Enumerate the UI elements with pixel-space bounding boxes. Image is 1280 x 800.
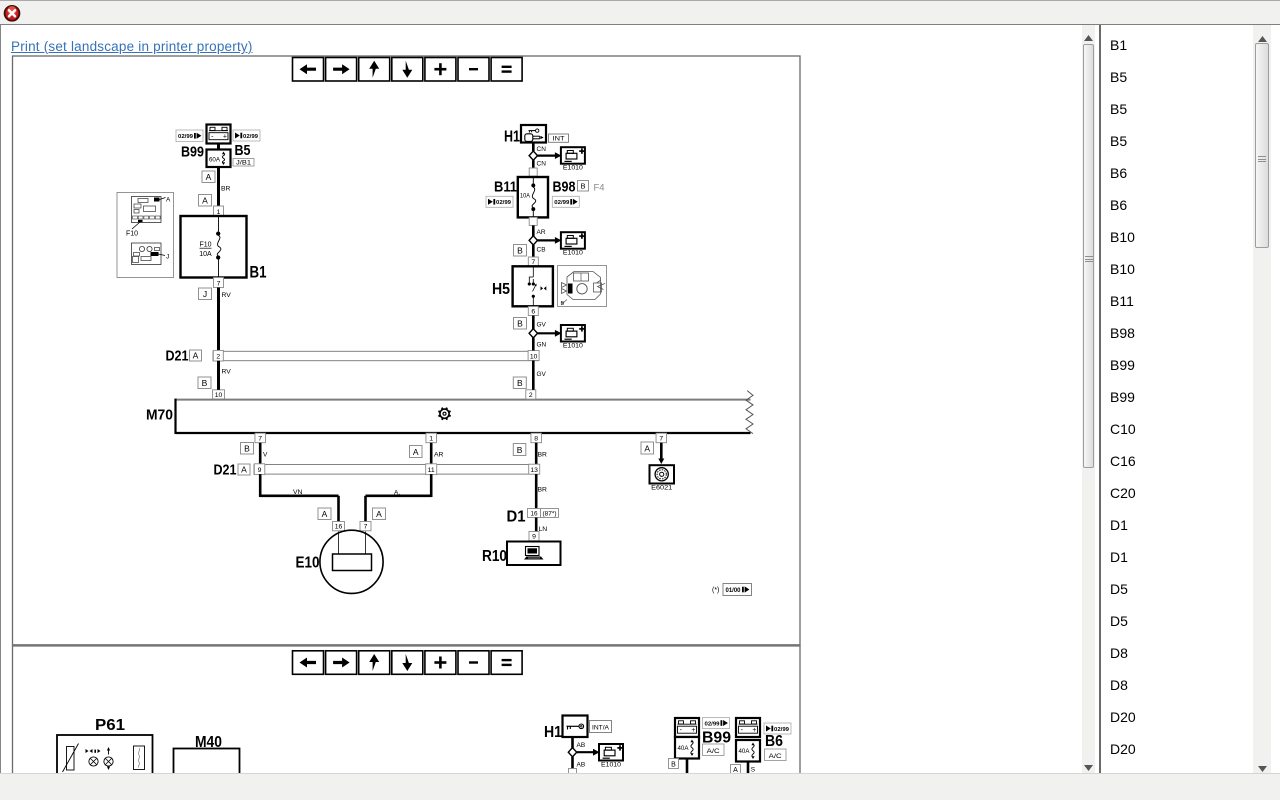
svg-text:GV: GV	[537, 322, 547, 329]
svg-text:LN: LN	[539, 526, 548, 533]
svg-text:02/99: 02/99	[554, 200, 570, 206]
svg-text:2: 2	[529, 392, 533, 399]
svg-text:E6021: E6021	[651, 485, 673, 492]
svg-text:BR: BR	[221, 186, 231, 193]
svg-text:A: A	[193, 350, 199, 360]
svg-text:B6: B6	[765, 733, 783, 750]
svg-text:F10: F10	[126, 231, 138, 238]
svg-text:A: A	[206, 172, 212, 182]
svg-text:E1010: E1010	[563, 343, 584, 350]
svg-text:A/C: A/C	[707, 748, 720, 755]
svg-text:B: B	[561, 301, 565, 307]
svg-text:B: B	[671, 761, 676, 768]
svg-text:(87*): (87*)	[543, 511, 557, 518]
svg-text:+: +	[223, 133, 227, 140]
svg-text:60A: 60A	[209, 158, 220, 164]
svg-text:A/C: A/C	[769, 753, 782, 760]
svg-text:+: +	[752, 727, 756, 734]
svg-text:D1: D1	[507, 509, 526, 526]
svg-text:D21: D21	[214, 463, 237, 479]
svg-text:1: 1	[429, 436, 433, 443]
svg-text:02/99: 02/99	[774, 727, 790, 733]
svg-text:A.: A.	[394, 490, 400, 497]
svg-text:9: 9	[258, 467, 262, 474]
svg-text:M70: M70	[146, 407, 173, 424]
svg-text:D21: D21	[166, 349, 189, 365]
svg-text:P61: P61	[95, 717, 125, 734]
svg-text:B: B	[517, 245, 523, 255]
svg-text:B: B	[517, 378, 523, 388]
svg-text:GV: GV	[537, 371, 547, 378]
svg-text:A: A	[376, 509, 382, 519]
svg-text:02/99: 02/99	[243, 134, 259, 140]
svg-text:B99: B99	[181, 144, 204, 161]
svg-text:10A: 10A	[520, 193, 531, 200]
svg-text:10: 10	[530, 353, 538, 360]
svg-text:AR: AR	[434, 452, 444, 459]
svg-text:B98: B98	[553, 179, 576, 196]
svg-text:7: 7	[217, 280, 221, 287]
svg-text:B: B	[244, 443, 250, 453]
svg-text:CB: CB	[537, 247, 546, 254]
svg-text:02/99: 02/99	[178, 134, 194, 140]
svg-text:10A: 10A	[199, 251, 212, 258]
svg-text:7: 7	[659, 436, 663, 443]
svg-text:A: A	[202, 195, 208, 205]
svg-text:J: J	[166, 254, 169, 261]
svg-text:01/00: 01/00	[726, 588, 742, 594]
svg-text:+: +	[691, 727, 695, 734]
svg-text:H1: H1	[504, 129, 520, 146]
svg-text:B5: B5	[235, 142, 251, 159]
svg-text:H1: H1	[544, 724, 562, 741]
svg-text:AR: AR	[537, 229, 546, 236]
svg-text:A: A	[322, 509, 328, 519]
svg-text:2: 2	[216, 354, 220, 361]
svg-text:8: 8	[534, 436, 538, 443]
svg-text:10: 10	[215, 392, 223, 399]
svg-text:B1: B1	[250, 263, 267, 282]
svg-text:CN: CN	[537, 146, 547, 153]
svg-text:(*): (*)	[712, 587, 719, 594]
svg-text:7: 7	[364, 524, 368, 531]
svg-text:INT/A: INT/A	[592, 726, 609, 732]
svg-text:13: 13	[530, 467, 538, 474]
svg-text:E1010: E1010	[563, 165, 584, 172]
svg-text:VN: VN	[293, 489, 303, 496]
svg-text:R10: R10	[482, 548, 507, 565]
svg-text:J: J	[203, 289, 207, 299]
svg-text:BR: BR	[538, 452, 548, 459]
svg-text:1: 1	[217, 209, 221, 216]
svg-text:16: 16	[530, 511, 538, 518]
svg-text:7: 7	[258, 436, 262, 443]
svg-text:16: 16	[335, 524, 343, 531]
svg-text:A: A	[644, 443, 650, 453]
svg-text:B: B	[517, 445, 523, 455]
svg-text:CN: CN	[537, 161, 547, 168]
svg-text:A: A	[166, 197, 171, 204]
svg-text:B: B	[580, 181, 585, 190]
svg-text:B11: B11	[494, 179, 517, 196]
svg-text:RV: RV	[222, 369, 232, 376]
svg-text:E10: E10	[296, 555, 320, 572]
svg-text:02/99: 02/99	[705, 721, 721, 727]
svg-text:H5: H5	[492, 281, 510, 298]
svg-text:40A: 40A	[739, 749, 750, 755]
svg-text:RV: RV	[222, 292, 232, 299]
svg-text:F4: F4	[594, 183, 605, 194]
svg-text:40A: 40A	[678, 746, 689, 752]
svg-text:E1010: E1010	[563, 250, 584, 257]
svg-text:B: B	[517, 318, 523, 328]
svg-text:02/99: 02/99	[496, 200, 512, 206]
svg-text:6: 6	[531, 308, 535, 315]
svg-text:AB: AB	[577, 742, 586, 749]
svg-text:BR: BR	[538, 487, 548, 494]
svg-text:AB: AB	[577, 762, 586, 769]
svg-text:A: A	[241, 464, 247, 474]
svg-text:A: A	[413, 447, 419, 457]
svg-text:9: 9	[532, 534, 536, 541]
svg-text:J/B1: J/B1	[236, 161, 252, 167]
svg-text:11: 11	[428, 467, 435, 474]
svg-text:INT: INT	[553, 136, 565, 143]
svg-text:F10: F10	[199, 242, 211, 249]
svg-text:B: B	[202, 378, 208, 388]
svg-text:E1010: E1010	[601, 762, 622, 769]
svg-text:V: V	[263, 452, 268, 459]
svg-text:GN: GN	[537, 341, 547, 348]
svg-text:7: 7	[531, 259, 535, 266]
